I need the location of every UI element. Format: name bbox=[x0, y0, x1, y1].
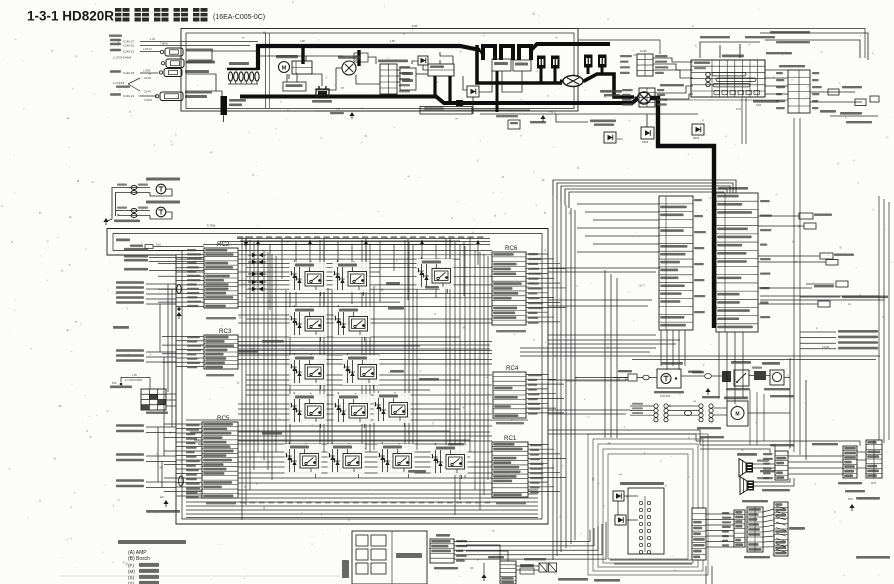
svg-text:L.88: L.88 bbox=[390, 40, 395, 43]
speaker label bbox=[737, 453, 757, 456]
relay row4 A clearing bbox=[290, 394, 327, 424]
TB2 to washer verticals bbox=[719, 332, 743, 404]
RC2 left labels bbox=[187, 249, 202, 307]
RC6 label bbox=[505, 245, 518, 252]
relay row5 D clearing bbox=[431, 445, 468, 475]
engine compartment box inner bbox=[186, 33, 574, 109]
svg-text:L.81: L.81 bbox=[150, 38, 155, 41]
cabin lamp 1 bbox=[117, 178, 180, 197]
svg-text:9-16A: 9-16A bbox=[640, 49, 647, 53]
RC4 bottom caption bbox=[496, 422, 524, 424]
jumper fuse box 2 bbox=[513, 60, 531, 71]
water temp gauge bbox=[764, 370, 794, 397]
RC4 right labels bbox=[528, 374, 542, 415]
thick bottom bus B3 bbox=[240, 97, 637, 104]
relay extra labels bbox=[238, 282, 464, 473]
thick bus B1 right bbox=[531, 44, 610, 50]
door switch label bbox=[731, 361, 751, 364]
label haohua bbox=[113, 326, 129, 329]
RC2 bottom caption bbox=[206, 317, 236, 319]
TB1 to lamp row verticals bbox=[661, 330, 685, 370]
charge relay cluster bbox=[428, 64, 454, 104]
junction block J1 bbox=[110, 374, 176, 414]
svg-text:P44: P44 bbox=[848, 497, 853, 501]
room lamp caption bbox=[654, 391, 684, 398]
notch note bbox=[116, 239, 130, 242]
diode pair 4 bbox=[248, 280, 266, 285]
starter relay box bbox=[283, 74, 306, 91]
relay row5 B bbox=[329, 446, 362, 473]
voltage regulator grid bbox=[378, 60, 410, 95]
right stub wires top bbox=[810, 86, 879, 123]
svg-text:7.88.W: 7.88.W bbox=[160, 43, 169, 46]
svg-text:L.88: L.88 bbox=[300, 40, 305, 43]
bottom mid wires bbox=[466, 545, 620, 582]
svg-text:4.93.W: 4.93.W bbox=[144, 99, 153, 102]
relay row2 B clearing bbox=[334, 307, 371, 337]
svg-text:C140-15: C140-15 bbox=[123, 71, 134, 75]
TB1 left entry wires bbox=[577, 204, 659, 252]
fuse box bbox=[691, 55, 765, 98]
right mid horizontals bbox=[548, 335, 880, 360]
svg-text:9-78: 9-78 bbox=[736, 108, 741, 111]
connector grid B bbox=[622, 84, 684, 107]
svg-text:F/L: F/L bbox=[493, 55, 497, 59]
splice X2 bbox=[635, 92, 654, 104]
title text bbox=[27, 8, 265, 24]
top right corner wires bbox=[700, 33, 868, 60]
RC6 right labels bbox=[528, 253, 543, 324]
sensor long wires bbox=[140, 38, 258, 46]
svg-text:D404: D404 bbox=[693, 136, 700, 140]
ground T17 bbox=[315, 108, 420, 119]
fusible link FL1 bbox=[537, 56, 546, 69]
RC2 top arrow bbox=[244, 236, 248, 247]
fusible link FL4 bbox=[598, 55, 607, 68]
battery symbol bbox=[312, 86, 332, 103]
box top edge wires right bbox=[300, 24, 865, 58]
engine box divider bbox=[266, 33, 270, 108]
svg-text:RC3: RC3 bbox=[219, 328, 232, 335]
label main harness bbox=[600, 90, 622, 96]
svg-text:C140-24: C140-24 bbox=[123, 94, 134, 98]
fuse box caption bbox=[753, 31, 810, 107]
edge connector box bbox=[420, 107, 530, 115]
svg-text:6.75W: 6.75W bbox=[207, 224, 215, 228]
TB2 right stubs bbox=[758, 213, 854, 307]
diode pair 5 bbox=[248, 287, 266, 292]
svg-text:2-5V-ION: 2-5V-ION bbox=[660, 395, 670, 398]
engine compartment box outer bbox=[181, 29, 578, 112]
mid vertical bundle 2 bbox=[605, 270, 617, 438]
wire bundle to TB1 bbox=[553, 180, 736, 208]
small relay box bbox=[496, 115, 520, 129]
relay row2 A bbox=[291, 309, 324, 336]
svg-text:(F): (F) bbox=[128, 563, 134, 568]
diode box D404c bbox=[604, 132, 623, 143]
svg-text:L.93.B: L.93.B bbox=[143, 70, 151, 73]
svg-text:(B) Bosch: (B) Bosch bbox=[128, 556, 150, 562]
thick bus to right riser bbox=[650, 98, 714, 328]
fusible link FL2 bbox=[551, 56, 560, 69]
relay row2 A clearing bbox=[290, 307, 327, 337]
speaker 2 bbox=[740, 477, 754, 495]
relay row2 B bbox=[335, 309, 368, 336]
diode box D404a bbox=[641, 114, 654, 144]
room lamp box bbox=[657, 369, 681, 388]
relay pin wires bbox=[289, 257, 461, 479]
right column stub wires bbox=[526, 254, 566, 492]
left labels group 2 bbox=[116, 349, 176, 362]
RC3 block bbox=[204, 335, 238, 369]
left labels rows upper bbox=[124, 248, 204, 271]
x-boxes bbox=[524, 558, 557, 572]
central bottom tiny labels bbox=[240, 502, 490, 504]
AC block wires right bbox=[454, 522, 606, 559]
svg-text:(16EA-C005-0C): (16EA-C005-0C) bbox=[213, 14, 265, 21]
connector col D3 bbox=[742, 500, 770, 558]
fusebox-C7 wires bbox=[765, 70, 788, 94]
svg-text:C04: C04 bbox=[756, 103, 761, 107]
left labels group 1 bbox=[116, 281, 176, 304]
door switch box bbox=[726, 370, 750, 390]
fusible link FL3 bbox=[584, 55, 593, 68]
small block B2 bbox=[520, 556, 890, 574]
ground wire under box bbox=[480, 110, 698, 115]
bottom right feeds bbox=[548, 430, 712, 584]
diode box D1 bbox=[418, 56, 428, 65]
speaker wires bbox=[753, 460, 794, 492]
svg-text:1-17/23-8 #006: 1-17/23-8 #006 bbox=[125, 379, 143, 382]
svg-text:C140-13: C140-13 bbox=[123, 49, 134, 53]
connector grid A bbox=[620, 49, 668, 76]
washer motor bbox=[697, 397, 748, 430]
tall block TB2 bbox=[716, 187, 772, 332]
relay row1 A clearing bbox=[290, 262, 327, 292]
legend title bbox=[118, 540, 186, 544]
small block B1 bbox=[488, 556, 516, 584]
RC3 left labels bbox=[187, 336, 201, 368]
svg-text:D404: D404 bbox=[642, 140, 649, 144]
label crank sensor bbox=[556, 114, 616, 126]
left labels group 4 bbox=[116, 453, 176, 461]
central horizontal bundles 2 bbox=[186, 241, 528, 444]
alternator bbox=[338, 50, 368, 75]
mid vertical bundle bbox=[553, 196, 575, 560]
relay row1 C bbox=[418, 261, 451, 288]
RC4 block bbox=[493, 372, 526, 418]
thick bus drop x477 bbox=[477, 45, 562, 83]
svg-text:M: M bbox=[282, 66, 287, 72]
lamp ground bbox=[103, 218, 140, 225]
relay row5 C bbox=[379, 446, 412, 473]
RC2/RC3/RC5 stub wires bbox=[158, 251, 204, 497]
top rail wires bbox=[203, 239, 490, 311]
fuse bank comb bbox=[227, 62, 259, 84]
relay row5 C clearing bbox=[378, 444, 415, 474]
svg-text:M: M bbox=[735, 412, 739, 418]
RC6 block bbox=[492, 252, 526, 325]
door switch ground bbox=[702, 388, 720, 398]
sensor wiring labels bbox=[110, 39, 134, 98]
relay row4 B clearing bbox=[334, 394, 371, 424]
thick bus squares leg1 bbox=[540, 68, 543, 83]
diode box D2 bbox=[467, 86, 479, 114]
relay row1 C clearing bbox=[417, 259, 454, 289]
water temp sensor bbox=[749, 367, 766, 381]
connector strip S2 bbox=[838, 440, 882, 492]
connector col D2 bbox=[722, 510, 745, 547]
label H4 switch bbox=[146, 495, 180, 513]
connector C7 bbox=[776, 65, 822, 113]
svg-text:P10: P10 bbox=[112, 382, 117, 385]
right vertical harness bbox=[748, 118, 806, 460]
relay row5 B clearing bbox=[328, 444, 365, 474]
connector strip S1 bbox=[763, 444, 794, 480]
relay row4 B bbox=[335, 396, 368, 423]
svg-text:9.16: 9.16 bbox=[156, 244, 161, 247]
svg-text:T17: T17 bbox=[336, 108, 341, 111]
room lamp label bbox=[661, 362, 683, 365]
washer connector circles bbox=[630, 403, 727, 422]
RC5 left labels bbox=[186, 424, 200, 498]
sensor row wires bbox=[140, 48, 161, 102]
tall block TB1 bbox=[659, 196, 706, 330]
thick bus staples bbox=[480, 46, 531, 60]
svg-text:L.95: L.95 bbox=[132, 374, 137, 377]
right margin labels bbox=[800, 281, 888, 349]
connector col D4 bbox=[774, 502, 805, 556]
svg-text:(M): (M) bbox=[128, 569, 135, 574]
nested harness loops bbox=[588, 434, 708, 575]
svg-text:RC5: RC5 bbox=[217, 415, 230, 422]
RC1 bottom caption bbox=[496, 502, 526, 504]
thick bus X1 to squares bbox=[584, 68, 634, 98]
oval connector L2 bbox=[179, 476, 184, 486]
svg-text:H4: H4 bbox=[160, 495, 164, 499]
left labels group 5 bbox=[116, 479, 176, 487]
RC1 label bbox=[504, 435, 517, 442]
RC5 label bbox=[217, 415, 230, 422]
speaker 1 bbox=[739, 459, 753, 477]
jumper fuse box 1 bbox=[492, 55, 511, 112]
RC2 block bbox=[204, 248, 238, 308]
central region inner box bbox=[113, 234, 542, 520]
connector col D1 bbox=[692, 508, 706, 560]
right edge verticals bbox=[750, 196, 889, 445]
servo assembly box bbox=[613, 482, 664, 554]
RC1 right labels bbox=[530, 444, 543, 493]
svg-text:OUT: OUT bbox=[871, 481, 877, 485]
page bottom line bbox=[60, 575, 340, 577]
ground G2 bbox=[481, 574, 486, 581]
central horizontal mesh bbox=[186, 251, 538, 518]
central region outer box bbox=[107, 229, 548, 525]
RC5 block bbox=[202, 422, 238, 498]
RC4 label bbox=[506, 365, 519, 372]
relay row4 C bbox=[375, 395, 408, 422]
relay row3 B clearing bbox=[343, 355, 380, 385]
diode pair 3 bbox=[248, 272, 266, 277]
RC2 label bbox=[217, 241, 230, 248]
svg-text:RC2: RC2 bbox=[217, 241, 230, 248]
relay row4 C clearing bbox=[374, 393, 411, 423]
AC connector block bbox=[430, 534, 467, 569]
magnet valve stub bbox=[130, 244, 204, 249]
crossing horizontals right of box bbox=[548, 268, 660, 414]
bus junction square bbox=[456, 100, 463, 106]
grid A to fusebox wires bbox=[653, 58, 693, 99]
left dot ground bbox=[176, 307, 181, 319]
top box internal wires bbox=[186, 51, 522, 96]
water temp label bbox=[762, 362, 780, 365]
RC5 bottom caption bbox=[206, 502, 236, 504]
ground symbol G1 bbox=[530, 115, 546, 123]
regulator unit box bbox=[400, 68, 416, 90]
oval connector L1 bbox=[177, 285, 181, 294]
svg-text:RC1: RC1 bbox=[504, 435, 517, 442]
lamp feed wires bbox=[107, 188, 122, 222]
relay row1 A bbox=[291, 264, 324, 291]
door switch connector bbox=[681, 371, 731, 382]
svg-text:7-81.5: 7-81.5 bbox=[548, 110, 556, 114]
diode pair 2 bbox=[248, 260, 266, 265]
splice X1 bbox=[560, 76, 586, 87]
thick bus squares leg2 bbox=[554, 68, 557, 83]
relay row4 A bbox=[291, 396, 324, 423]
room lamp connectors bbox=[566, 370, 702, 381]
diode box D404b bbox=[692, 124, 704, 140]
relay row1 B clearing bbox=[333, 262, 370, 292]
fusebox down wires bbox=[664, 98, 788, 144]
cabin lamp 2 bbox=[117, 201, 180, 220]
engine sensors bbox=[155, 48, 184, 101]
svg-text:BAT: BAT bbox=[356, 59, 361, 62]
left margin verticals bbox=[158, 284, 172, 488]
relay row5 A bbox=[286, 446, 319, 473]
relay row3 A bbox=[291, 357, 324, 384]
RC1 block bbox=[492, 442, 528, 497]
svg-text:1-17/23-8 #004: 1-17/23-8 #004 bbox=[113, 56, 132, 60]
svg-text:C140-19: C140-19 bbox=[123, 43, 134, 47]
central top tiny labels bbox=[237, 236, 484, 238]
RC3 bottom caption bbox=[206, 374, 234, 376]
sensor header note bbox=[109, 35, 122, 37]
svg-text:RC4: RC4 bbox=[506, 365, 519, 372]
relay row3 B bbox=[344, 357, 377, 384]
svg-text:L.83.Y2: L.83.Y2 bbox=[143, 48, 152, 51]
relay row5 D bbox=[432, 447, 465, 474]
relay row1 B bbox=[334, 264, 367, 291]
legend entries bbox=[128, 550, 159, 584]
svg-text:D404: D404 bbox=[617, 138, 623, 141]
relay row5 A clearing bbox=[285, 444, 322, 474]
left labels group 3 bbox=[116, 424, 176, 432]
right mid horizontals 2 bbox=[520, 348, 656, 356]
svg-text:1-3-1 HD820R: 1-3-1 HD820R bbox=[27, 9, 114, 24]
AC unit box bbox=[342, 531, 427, 584]
central vertical mesh bbox=[242, 238, 488, 520]
central box top label 675W bbox=[207, 224, 215, 228]
sensor name labels bbox=[113, 49, 215, 99]
thick bus B1 bbox=[258, 46, 480, 70]
svg-text:1-17/23-8: 1-17/23-8 bbox=[113, 81, 125, 85]
svg-text:C14-8: C14-8 bbox=[144, 77, 151, 80]
svg-text:RC6: RC6 bbox=[505, 245, 518, 252]
cluster fan wires bbox=[706, 509, 774, 547]
p44 label bbox=[848, 497, 880, 511]
battery feed stub bbox=[221, 96, 247, 122]
svg-text:C14-9: C14-9 bbox=[144, 91, 151, 94]
RC6 bottom caption bbox=[496, 330, 526, 332]
svg-text:0.12R: 0.12R bbox=[822, 345, 829, 349]
S1-S2 wires bbox=[788, 452, 866, 474]
relay row3 A clearing bbox=[290, 355, 327, 385]
sensor branch wires bbox=[113, 77, 151, 94]
RC3 label bbox=[219, 328, 232, 335]
starter motor M bbox=[276, 46, 312, 74]
diode pair 1 bbox=[248, 253, 266, 258]
svg-text:EX: EX bbox=[356, 54, 360, 58]
speaker feed from left bbox=[696, 436, 860, 453]
svg-text:6.98: 6.98 bbox=[412, 24, 418, 28]
